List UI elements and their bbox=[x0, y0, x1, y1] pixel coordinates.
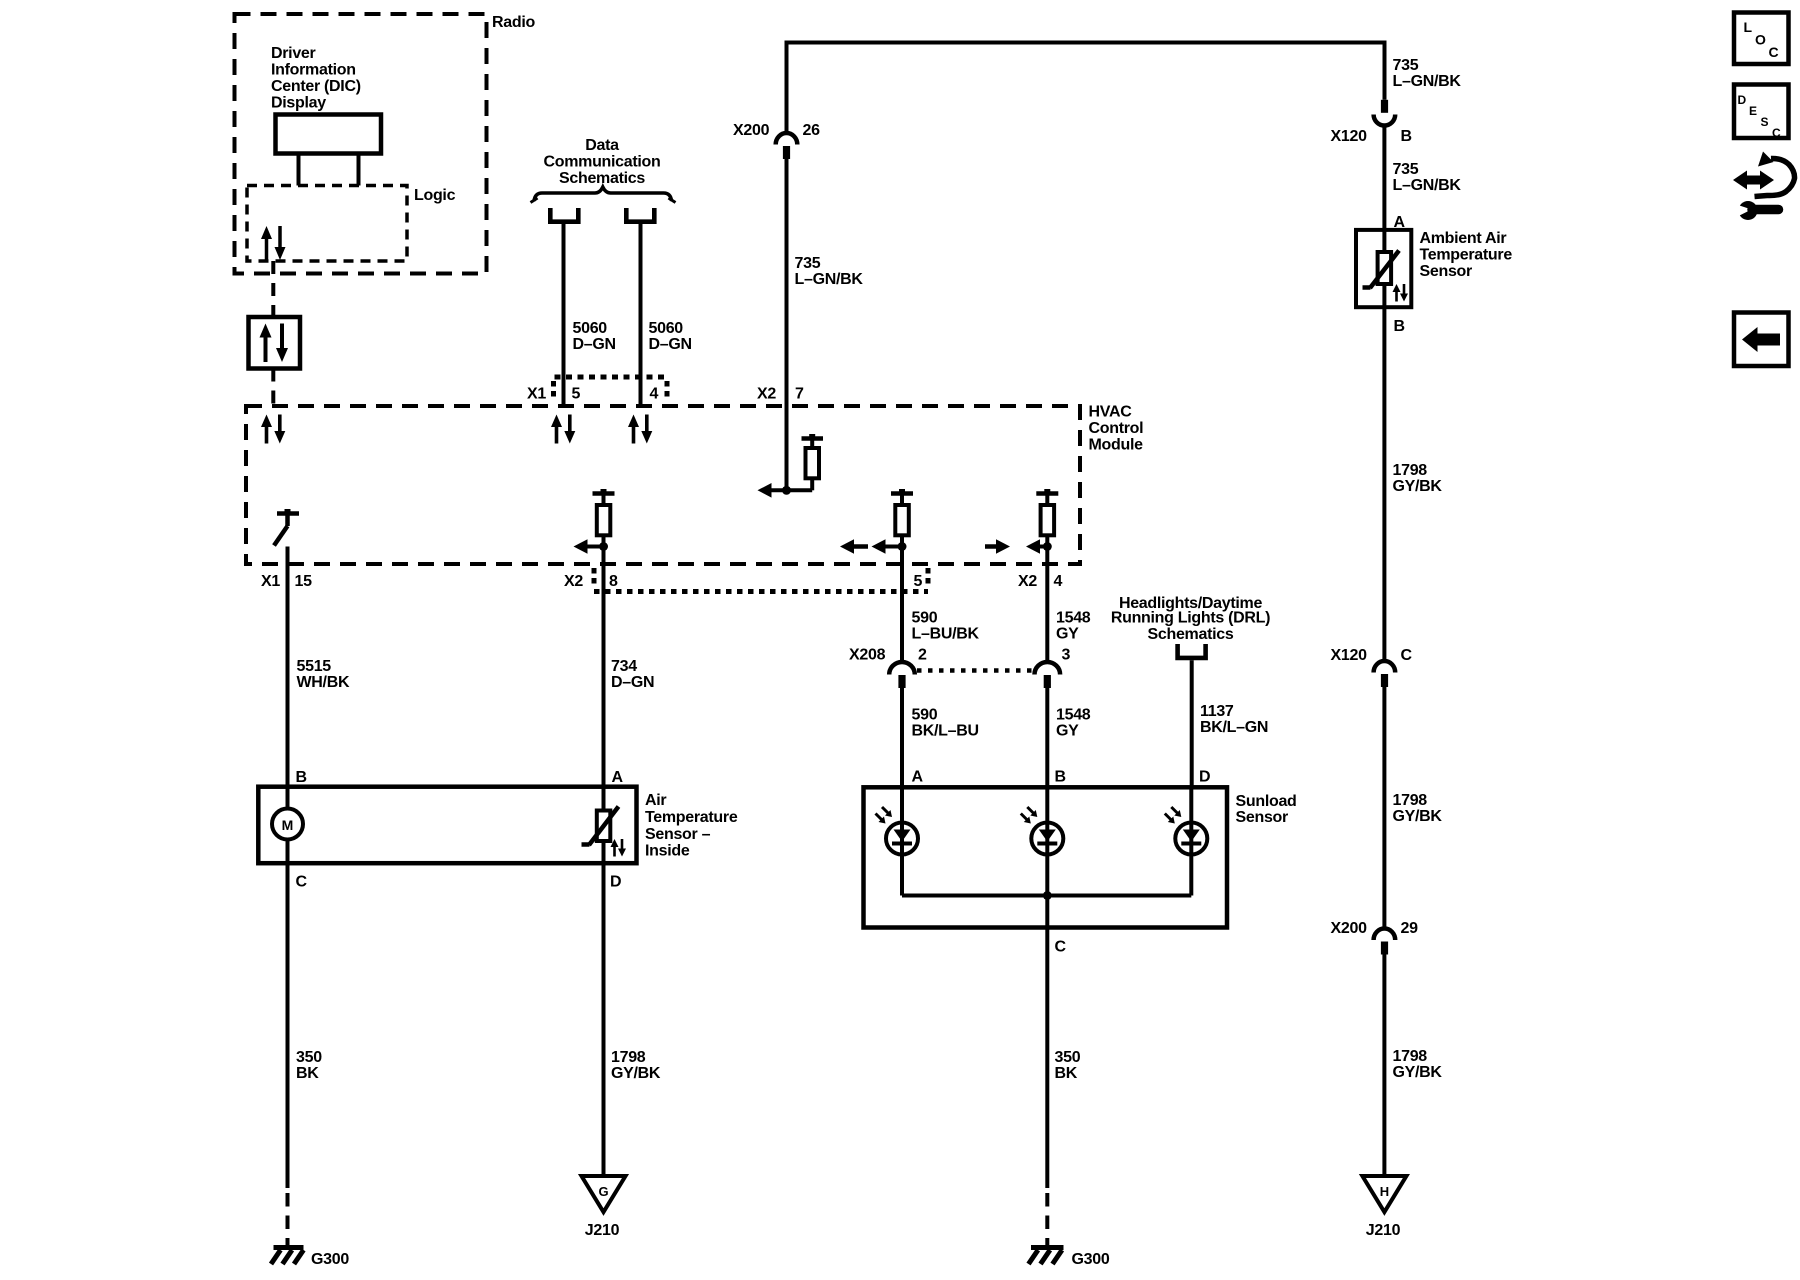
svg-text:X120: X120 bbox=[1331, 128, 1368, 145]
label X200 26 bbox=[733, 122, 820, 139]
svg-text:Temperature: Temperature bbox=[1420, 247, 1513, 264]
svg-text:GY/BK: GY/BK bbox=[1393, 808, 1443, 825]
resistor pin5 sunload bbox=[891, 489, 913, 547]
wire top bus 735 L-GN/BK bbox=[787, 43, 1385, 134]
thermistor ambient bbox=[1363, 230, 1400, 307]
svg-text:C: C bbox=[1769, 44, 1779, 60]
label pin B ambient bbox=[1394, 318, 1405, 335]
svg-text:Air: Air bbox=[645, 792, 666, 809]
wire 5060 D-GN right bbox=[639, 224, 643, 406]
svg-text:X2: X2 bbox=[757, 386, 776, 403]
label pin 3 bbox=[1062, 647, 1071, 664]
label 734 D-GN bbox=[611, 658, 654, 691]
icon turn arrow outline bbox=[1755, 158, 1795, 196]
label 5060 D-GN left bbox=[573, 320, 616, 353]
motor M aspirator bbox=[272, 787, 303, 864]
wire sunload C to ground bbox=[1045, 928, 1049, 1247]
svg-text:D: D bbox=[1738, 93, 1747, 107]
wire display leg right bbox=[357, 156, 361, 186]
Logic dashed box bbox=[247, 186, 407, 262]
label Air Temperature Sensor Inside bbox=[645, 792, 738, 860]
wire thermistor D to J210 bbox=[602, 863, 606, 1176]
svg-text:1798: 1798 bbox=[611, 1049, 646, 1066]
svg-text:Logic: Logic bbox=[414, 187, 456, 204]
icon back arrow bbox=[1742, 327, 1780, 352]
module up arrow X1 DIC bbox=[261, 415, 272, 444]
svg-text:26: 26 bbox=[803, 122, 821, 139]
label M bbox=[282, 817, 294, 833]
svg-text:3: 3 bbox=[1062, 647, 1071, 664]
Radio dashed box bbox=[235, 14, 487, 274]
label pin A thermistor bbox=[612, 769, 624, 786]
svg-text:S: S bbox=[1761, 115, 1769, 129]
svg-text:GY/BK: GY/BK bbox=[1393, 478, 1443, 495]
module up arrow pin5 bbox=[551, 415, 562, 444]
logic down arrow bbox=[275, 226, 286, 260]
svg-text:X120: X120 bbox=[1331, 647, 1368, 664]
svg-text:1798: 1798 bbox=[1393, 792, 1428, 809]
icon wrench handle bbox=[1752, 205, 1779, 215]
DIC display box bbox=[276, 115, 382, 154]
svg-text:Inside: Inside bbox=[645, 843, 690, 860]
junction X2-8 bbox=[599, 542, 608, 551]
junction pin5 bbox=[898, 542, 907, 551]
svg-text:L–GN/BK: L–GN/BK bbox=[1393, 73, 1462, 90]
wire sunload internal bus bbox=[902, 894, 1191, 898]
connector X1 dotted pin box bbox=[554, 377, 668, 398]
svg-text:D–GN: D–GN bbox=[649, 336, 692, 353]
svg-text:Information: Information bbox=[271, 62, 356, 79]
module down arrow pin5 bbox=[564, 415, 575, 444]
svg-text:Radio: Radio bbox=[492, 14, 535, 31]
svg-text:Data: Data bbox=[585, 137, 619, 154]
svg-text:B: B bbox=[1394, 318, 1405, 335]
svg-text:GY/BK: GY/BK bbox=[611, 1065, 661, 1082]
svg-text:D: D bbox=[1199, 769, 1210, 786]
svg-text:X1: X1 bbox=[261, 573, 280, 590]
label 5515 WH/BK bbox=[297, 658, 350, 691]
svg-text:Running Lights (DRL): Running Lights (DRL) bbox=[1111, 610, 1270, 627]
label 1798 GY/BK right 3 bbox=[1393, 1048, 1443, 1081]
label pin B sunload bbox=[1055, 769, 1066, 786]
photodiode D bbox=[1175, 787, 1207, 895]
svg-text:Driver: Driver bbox=[271, 45, 316, 62]
wire X2-4 to X208-3 bbox=[1045, 547, 1049, 663]
label X2 pin 7 bbox=[757, 386, 804, 403]
logic up arrow bbox=[261, 226, 272, 260]
brace bbox=[531, 187, 676, 203]
svg-text:D: D bbox=[610, 874, 621, 891]
wire X2-4 arrow branch bbox=[1038, 545, 1047, 549]
label pin C motor bbox=[296, 874, 308, 891]
svg-text:7: 7 bbox=[795, 386, 804, 403]
wire X208-3 to sunload B bbox=[1045, 688, 1049, 787]
svg-text:O: O bbox=[1755, 32, 1766, 48]
svg-text:C: C bbox=[296, 874, 308, 891]
connector X200 pin 26 bbox=[776, 133, 798, 159]
connector lug data bus 2 bbox=[626, 208, 654, 222]
label Headlights Daytime Running Lights DRL Schematics bbox=[1111, 595, 1270, 643]
label pin C sunload bbox=[1055, 939, 1067, 956]
connector X120 pin B bbox=[1374, 100, 1396, 126]
svg-text:BK: BK bbox=[296, 1065, 319, 1082]
label X1 pin 15 bbox=[261, 573, 312, 590]
ground G300 sunload bbox=[1029, 1248, 1064, 1265]
label 5060 D-GN right bbox=[649, 320, 692, 353]
resistor X2-8 bbox=[593, 489, 615, 547]
label 735 L-GN/BK right mid bbox=[1393, 161, 1462, 194]
svg-text:590: 590 bbox=[912, 610, 938, 627]
ambient arrows small bbox=[1393, 284, 1408, 302]
wire 735 to ambient sensor bbox=[1382, 126, 1386, 230]
svg-text:B: B bbox=[1055, 769, 1066, 786]
svg-text:4: 4 bbox=[650, 386, 659, 403]
svg-text:X2: X2 bbox=[564, 573, 583, 590]
svg-text:Sensor –: Sensor – bbox=[645, 826, 711, 843]
light arrows B bbox=[1021, 807, 1035, 821]
svg-text:Schematics: Schematics bbox=[1148, 626, 1234, 643]
svg-text:A: A bbox=[612, 769, 624, 786]
label Logic bbox=[414, 187, 456, 204]
label 590 BK/L-BU bbox=[912, 707, 979, 740]
label X120 C bbox=[1331, 647, 1413, 664]
svg-text:1137: 1137 bbox=[1200, 703, 1234, 720]
svg-text:B: B bbox=[1401, 128, 1412, 145]
connector X120 pin C bbox=[1374, 661, 1396, 687]
wire 5060 D-GN left bbox=[562, 224, 566, 406]
icon DESC box bbox=[1734, 85, 1789, 139]
svg-text:4: 4 bbox=[1054, 573, 1063, 590]
icon DESC letters bbox=[1738, 93, 1782, 140]
svg-text:Sensor: Sensor bbox=[1236, 809, 1289, 826]
label 350 BK left bbox=[296, 1049, 322, 1082]
svg-text:5060: 5060 bbox=[573, 320, 608, 337]
label J210 left bbox=[585, 1222, 620, 1239]
module down arrow X1 DIC bbox=[274, 415, 285, 444]
svg-text:734: 734 bbox=[611, 658, 637, 675]
svg-text:Control: Control bbox=[1089, 420, 1144, 437]
svg-text:C: C bbox=[1772, 126, 1781, 140]
svg-text:735: 735 bbox=[1393, 57, 1419, 74]
label G300 sunload bbox=[1072, 1251, 1110, 1268]
icon LOC letters bbox=[1744, 19, 1779, 60]
svg-text:E: E bbox=[1749, 104, 1757, 118]
label 1548 GY upper bbox=[1056, 610, 1091, 643]
wire X2-7 branch with arrow bbox=[769, 488, 812, 492]
photodiode A bbox=[886, 787, 918, 895]
svg-text:X200: X200 bbox=[1331, 920, 1368, 937]
wire 1137 BK/L-GN bbox=[1190, 660, 1194, 787]
svg-text:15: 15 bbox=[295, 573, 313, 590]
wire X120 C to X200 29 bbox=[1382, 687, 1386, 929]
label X2 pin 8 bbox=[564, 573, 618, 590]
label X208 2 bbox=[849, 647, 927, 664]
label 1548 GY lower bbox=[1056, 707, 1091, 740]
label pin A sunload bbox=[912, 769, 924, 786]
svg-text:D–GN: D–GN bbox=[573, 336, 616, 353]
svg-text:WH/BK: WH/BK bbox=[297, 674, 350, 691]
label Ambient Air Temperature Sensor bbox=[1420, 230, 1513, 280]
light arrows A bbox=[876, 807, 890, 821]
svg-text:D–GN: D–GN bbox=[611, 674, 654, 691]
thermistor inside sensor bbox=[582, 787, 619, 864]
svg-text:Display: Display bbox=[271, 95, 326, 112]
svg-text:G300: G300 bbox=[1072, 1251, 1110, 1268]
svg-text:L–BU/BK: L–BU/BK bbox=[912, 626, 980, 643]
icon wrench notch bbox=[1734, 204, 1752, 218]
svg-text:L: L bbox=[1744, 19, 1753, 35]
svg-text:Temperature: Temperature bbox=[645, 809, 738, 826]
svg-text:350: 350 bbox=[296, 1049, 322, 1066]
icon back arrow box bbox=[1734, 313, 1789, 367]
svg-text:G: G bbox=[598, 1184, 608, 1199]
arrowhead pin5 attached bbox=[872, 539, 886, 554]
label X200 29 bbox=[1331, 920, 1419, 937]
svg-text:L–GN/BK: L–GN/BK bbox=[795, 271, 864, 288]
junction sunload bus bbox=[1043, 891, 1052, 900]
svg-text:X200: X200 bbox=[733, 122, 770, 139]
svg-text:590: 590 bbox=[912, 707, 938, 724]
ambient air temperature sensor box bbox=[1356, 230, 1411, 307]
svg-text:5: 5 bbox=[572, 386, 581, 403]
icon turn arrow head bbox=[1758, 152, 1774, 167]
label X1 pin 5 pin 4 bbox=[527, 386, 659, 403]
ground triangle J210 G bbox=[582, 1176, 626, 1212]
svg-text:735: 735 bbox=[1393, 161, 1419, 178]
svg-text:Ambient Air: Ambient Air bbox=[1420, 230, 1507, 247]
wire X208-2 to sunload A bbox=[900, 688, 904, 787]
svg-text:C: C bbox=[1055, 939, 1067, 956]
svg-text:X208: X208 bbox=[849, 647, 886, 664]
sunload sensor box bbox=[864, 787, 1228, 927]
wire pin5 arrow branch bbox=[884, 545, 903, 549]
svg-text:1548: 1548 bbox=[1056, 707, 1091, 724]
svg-text:BK/L–BU: BK/L–BU bbox=[912, 723, 979, 740]
svg-text:Sunload: Sunload bbox=[1236, 793, 1297, 810]
svg-text:GY: GY bbox=[1056, 626, 1079, 643]
connector X208 pin 3 bbox=[1035, 662, 1061, 688]
icon double arrow bbox=[1733, 171, 1774, 190]
svg-text:Center (DIC): Center (DIC) bbox=[271, 78, 361, 95]
svg-text:2: 2 bbox=[918, 647, 927, 664]
label 1798 GY/BK right 1 bbox=[1393, 462, 1443, 495]
label 735 L-GN/BK bbox=[795, 255, 864, 288]
svg-text:X2: X2 bbox=[1018, 573, 1037, 590]
label pin A ambient bbox=[1394, 214, 1406, 231]
label G bbox=[598, 1184, 608, 1199]
label Sunload Sensor bbox=[1236, 793, 1297, 826]
svg-text:735: 735 bbox=[795, 255, 821, 272]
connector X208 pin 2 bbox=[889, 662, 915, 688]
label pin D thermistor bbox=[610, 874, 621, 891]
svg-text:B: B bbox=[296, 769, 307, 786]
photodiode B bbox=[1031, 787, 1063, 927]
label H bbox=[1380, 1184, 1389, 1199]
svg-text:BK/L–GN: BK/L–GN bbox=[1200, 719, 1268, 736]
arrowhead X2-4 attached bbox=[1026, 539, 1040, 554]
svg-text:J210: J210 bbox=[1366, 1222, 1401, 1239]
svg-text:29: 29 bbox=[1401, 920, 1419, 937]
arrow X2-4 detached right bbox=[985, 544, 998, 549]
svg-text:Sensor: Sensor bbox=[1420, 263, 1473, 280]
thermistor arrows small bbox=[611, 839, 627, 857]
junction X2-4 bbox=[1043, 542, 1052, 551]
label X2 pin 4 bbox=[1018, 573, 1063, 590]
resistor X2-7 termination bbox=[802, 434, 824, 490]
resistor X2-4 bbox=[1036, 489, 1058, 547]
arrow pin5 detached bbox=[853, 544, 868, 549]
connector X2 dotted pin box 8-5 bbox=[594, 568, 928, 592]
module up arrow pin4 bbox=[628, 415, 639, 444]
wire ambient B to X120 C bbox=[1382, 307, 1386, 661]
label pin B motor bbox=[296, 769, 307, 786]
connector lug data bus 1 bbox=[550, 208, 578, 222]
svg-text:H: H bbox=[1380, 1184, 1389, 1199]
svg-text:350: 350 bbox=[1055, 1049, 1081, 1066]
HVAC module dashed box bbox=[246, 406, 1080, 564]
icon LOC box bbox=[1734, 13, 1789, 65]
wire pin5 to X208-2 bbox=[900, 547, 904, 663]
arrowhead X2-8 left bbox=[574, 539, 588, 554]
svg-text:5060: 5060 bbox=[649, 320, 684, 337]
wire X1-15 to sensor bbox=[286, 547, 290, 787]
svg-text:A: A bbox=[912, 769, 924, 786]
light arrows D bbox=[1165, 807, 1179, 821]
junction X2-7 bbox=[782, 486, 791, 495]
module down arrow pin4 bbox=[641, 415, 652, 444]
svg-text:5515: 5515 bbox=[297, 658, 332, 675]
svg-text:X1: X1 bbox=[527, 386, 546, 403]
arrowhead X2-7 left bbox=[758, 483, 772, 498]
svg-text:M: M bbox=[282, 817, 294, 833]
svg-text:L–GN/BK: L–GN/BK bbox=[1393, 177, 1462, 194]
label Driver Information Center (DIC) Display bbox=[271, 45, 361, 112]
svg-text:1798: 1798 bbox=[1393, 1048, 1428, 1065]
wire 735 to module bbox=[785, 159, 789, 490]
wire display leg left bbox=[297, 156, 301, 186]
serial interface box bbox=[249, 317, 301, 369]
label pin D sunload bbox=[1199, 769, 1210, 786]
svg-text:5: 5 bbox=[914, 573, 923, 590]
label 1137 BK/L-GN bbox=[1200, 703, 1268, 736]
svg-text:HVAC: HVAC bbox=[1089, 404, 1133, 421]
svg-text:Module: Module bbox=[1089, 437, 1144, 454]
label Radio bbox=[492, 14, 535, 31]
dashed wire logic to interface box bbox=[271, 261, 275, 317]
icon wrench head bbox=[1739, 201, 1758, 220]
svg-text:J210: J210 bbox=[585, 1222, 620, 1239]
svg-text:C: C bbox=[1401, 647, 1413, 664]
svg-text:GY/BK: GY/BK bbox=[1393, 1064, 1443, 1081]
svg-text:8: 8 bbox=[609, 573, 618, 590]
label X120 B bbox=[1331, 128, 1412, 145]
svg-text:Communication: Communication bbox=[544, 154, 661, 171]
label 1798 GY/BK right 2 bbox=[1393, 792, 1443, 825]
label 590 L-BU/BK bbox=[912, 610, 980, 643]
label 1798 GY/BK left bbox=[611, 1049, 661, 1082]
wire motor C to ground bbox=[286, 863, 290, 1246]
dashed wire interface box to HVAC module bbox=[271, 369, 275, 407]
ground G300 left bbox=[271, 1248, 304, 1265]
svg-text:GY: GY bbox=[1056, 723, 1079, 740]
air temperature sensor inside box bbox=[258, 787, 636, 864]
svg-text:BK: BK bbox=[1055, 1065, 1078, 1082]
wire X2-8 arrow branch bbox=[585, 545, 604, 549]
ground triangle J210 H bbox=[1362, 1176, 1406, 1212]
dotted link X208 bbox=[917, 668, 1033, 673]
svg-text:1798: 1798 bbox=[1393, 462, 1428, 479]
svg-text:1548: 1548 bbox=[1056, 610, 1091, 627]
connector lug DRL bbox=[1178, 644, 1206, 658]
label Data Communication Schematics bbox=[544, 137, 661, 187]
svg-text:G300: G300 bbox=[311, 1251, 349, 1268]
label pin 5 bbox=[914, 573, 923, 590]
label G300 left bbox=[311, 1251, 349, 1268]
switch X1-15 inside module bbox=[274, 509, 299, 546]
label HVAC Control Module bbox=[1089, 404, 1144, 454]
label J210 right bbox=[1366, 1222, 1401, 1239]
interface box up arrow bbox=[260, 324, 272, 363]
arrowhead pin5 detached bbox=[840, 539, 854, 554]
connector X200 pin 29 bbox=[1374, 929, 1396, 955]
wire X2-8 to sensor pin A bbox=[602, 547, 606, 787]
label 735 L-GN/BK right top bbox=[1393, 57, 1462, 90]
wire X200 29 to J210 bbox=[1382, 955, 1386, 1177]
interface box down arrow bbox=[276, 324, 288, 363]
arrowhead X2-4 detached bbox=[996, 539, 1010, 554]
label 350 BK sunload bbox=[1055, 1049, 1081, 1082]
